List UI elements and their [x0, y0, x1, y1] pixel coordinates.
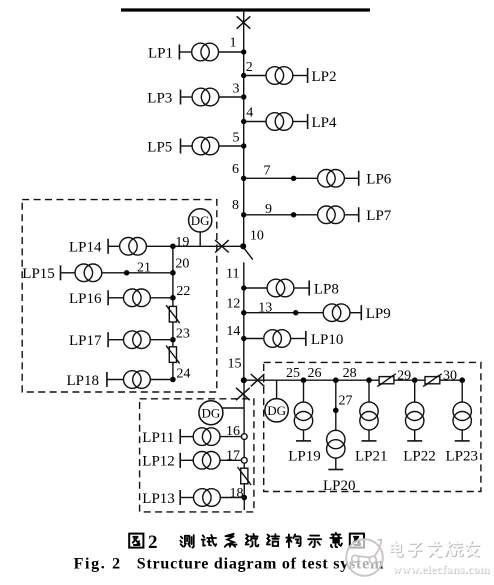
svg-text:23: 23 [176, 327, 190, 342]
node 15 [241, 377, 247, 383]
svg-text:LP3: LP3 [147, 90, 172, 106]
LEFT DASHED BOX [22, 200, 243, 392]
fuse between 23 and 24 [166, 346, 180, 364]
svg-text:LP8: LP8 [314, 281, 339, 297]
wire feeder lower (node15 into bottom box) [243, 380, 245, 510]
svg-text:LP19: LP19 [288, 449, 321, 465]
svg-text:4: 4 [246, 106, 253, 121]
子 [409, 544, 422, 557]
svg-text:LP11: LP11 [142, 430, 174, 446]
node 27 and LP20 load [335, 380, 337, 431]
caption CN: 测 [180, 535, 193, 547]
LP23 load [461, 380, 463, 402]
caption CN: 结 [267, 534, 279, 546]
wire main feeder middle (node 11 to 15) [243, 262, 245, 380]
svg-text:LP22: LP22 [403, 449, 436, 465]
LP2 load [244, 75, 266, 77]
svg-text:19: 19 [175, 235, 189, 250]
watermark hanzi 电子发烧友 (embossed gray) [391, 541, 480, 557]
caption CN: 意 [330, 533, 342, 547]
wire node19 to node10 [146, 245, 242, 247]
svg-text:22: 22 [176, 284, 190, 299]
node 24 [170, 377, 176, 383]
svg-text:2: 2 [246, 60, 253, 75]
svg-text:24: 24 [176, 366, 190, 381]
LP19 load [303, 380, 305, 402]
svg-text:25: 25 [286, 366, 300, 381]
svg-text:LP4: LP4 [312, 115, 338, 131]
breaker X on tie 19-10 [215, 240, 229, 252]
svg-text:DG: DG [267, 403, 286, 418]
MAIN-GRID [121, 10, 392, 510]
svg-text:5: 5 [233, 131, 240, 146]
LP22 load [414, 380, 416, 402]
node 12 [241, 310, 246, 315]
caption CN: 试 [202, 535, 217, 546]
svg-text:14: 14 [226, 324, 240, 339]
LP9 load with node 13 [244, 312, 323, 314]
svg-text:29: 29 [397, 368, 411, 383]
svg-text:LP1: LP1 [148, 45, 173, 61]
node 23 [170, 337, 176, 343]
breaker X CB-top [237, 16, 251, 28]
CAPTION [74, 532, 384, 573]
LP4 load [244, 121, 266, 123]
svg-text:15: 15 [228, 357, 242, 372]
svg-text:LP23: LP23 [445, 449, 478, 465]
bus bar (source busbar) [121, 8, 370, 11]
node 8 [241, 212, 246, 217]
disconnector slash below node 10 [244, 249, 253, 260]
svg-text:3: 3 [233, 82, 240, 97]
svg-text:30: 30 [443, 368, 457, 383]
svg-text:6: 6 [232, 162, 239, 177]
svg-text:LP15: LP15 [22, 266, 55, 282]
svg-text:LP5: LP5 [147, 139, 172, 155]
BOTTOM RIGHT BOX [244, 362, 481, 494]
wire main feeder upper (bus to node 10) [243, 10, 245, 249]
svg-text:28: 28 [343, 366, 357, 381]
svg-text:17: 17 [226, 448, 240, 463]
fuse between 22 and 23 [166, 305, 180, 323]
LP10 load [244, 338, 264, 340]
LP6 load with node 7 [244, 177, 318, 179]
LP7 load with node 9 [244, 214, 318, 216]
node 3 [241, 94, 246, 99]
node 6 [241, 176, 246, 181]
fuse between 17 and 18 [238, 467, 252, 485]
node 19 [170, 244, 176, 250]
DG unit 3 [276, 380, 278, 399]
svg-text:18: 18 [230, 486, 244, 501]
node 20 [170, 270, 176, 276]
node 14 [241, 336, 246, 341]
svg-text:LP18: LP18 [67, 373, 100, 389]
caption CN: 系 [225, 534, 237, 547]
svg-text:www.elecfans.com: www.elecfans.com [393, 563, 490, 576]
电 [392, 543, 404, 557]
node 11 [241, 285, 246, 290]
svg-text:7: 7 [264, 164, 271, 179]
WATERMARK [346, 539, 490, 577]
svg-text:11: 11 [226, 267, 239, 282]
fuse between 29 and 30 [423, 374, 442, 387]
svg-text:13: 13 [258, 300, 272, 315]
wire 19 down to 24 [172, 246, 174, 379]
breaker X below node 15 [236, 388, 250, 400]
watermark logo bonds [349, 540, 382, 570]
LP21 load [368, 380, 370, 402]
node 2 [241, 73, 246, 78]
svg-text:12: 12 [226, 297, 240, 312]
BOTTOM CENTER BOX [140, 399, 254, 512]
svg-text:DG: DG [191, 213, 210, 228]
node 5 [241, 143, 246, 148]
svg-text:LP17: LP17 [69, 333, 102, 349]
watermark logo circle [346, 539, 383, 576]
DG unit 2 [199, 401, 223, 425]
svg-text:LP20: LP20 [323, 478, 356, 494]
caption CN: 统 [246, 534, 259, 547]
友 [467, 542, 480, 557]
dashed box zone A [22, 200, 217, 392]
svg-text:LP14: LP14 [69, 240, 102, 256]
svg-text:8: 8 [232, 198, 239, 213]
LP8 load [244, 287, 267, 289]
svg-text:LP6: LP6 [366, 172, 392, 188]
svg-text:LP2: LP2 [312, 69, 337, 85]
svg-text:20: 20 [175, 257, 189, 272]
node 4 [241, 119, 246, 124]
breaker X on tie 15-25 [251, 374, 265, 386]
svg-text:27: 27 [339, 393, 353, 408]
svg-text:LP10: LP10 [311, 332, 344, 348]
svg-text:Fig. 2: Fig. 2 [74, 555, 121, 572]
caption CN: 图 (second) [350, 534, 364, 548]
svg-text:LP21: LP21 [355, 449, 388, 465]
svg-text:1: 1 [230, 36, 237, 51]
wire node15 to node30 [244, 379, 462, 381]
DG unit 1 [189, 209, 212, 232]
svg-text:9: 9 [265, 202, 272, 217]
svg-text:10: 10 [250, 229, 264, 244]
发 [429, 542, 442, 557]
svg-text:LP12: LP12 [142, 454, 175, 470]
dashed box zone B [140, 399, 254, 512]
svg-text:LP9: LP9 [366, 306, 391, 322]
caption CN: 构 [286, 534, 300, 547]
svg-text:2: 2 [148, 532, 158, 553]
caption CN: 示 [308, 536, 321, 548]
svg-text:DG: DG [202, 405, 221, 420]
node 22 [170, 295, 176, 301]
node 1 [241, 49, 246, 54]
svg-text:26: 26 [308, 366, 322, 381]
dashed box zone C [264, 362, 481, 491]
caption CN: 图 [129, 534, 143, 548]
svg-text:LP13: LP13 [142, 491, 175, 507]
svg-text:LP16: LP16 [69, 291, 102, 307]
fuse between 28 and 29 [377, 374, 396, 387]
svg-text:21: 21 [137, 261, 151, 276]
svg-text:LP7: LP7 [366, 208, 392, 224]
烧 [447, 542, 463, 556]
node 10 [240, 243, 246, 249]
